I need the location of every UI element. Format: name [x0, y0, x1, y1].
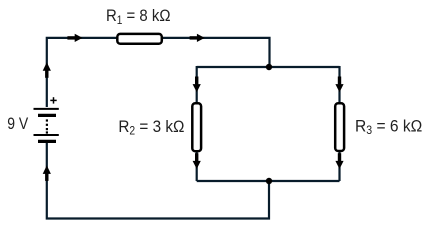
node B: bottom junction dot — [266, 178, 272, 184]
wire: R3 branch vertical — [338, 66, 340, 181]
current arrow down out of R2 — [193, 153, 201, 169]
svg-text:R3 = 6 kΩ: R3 = 6 kΩ — [355, 117, 422, 138]
wire: bottom return to battery - — [47, 142, 269, 219]
resistor R3 body — [335, 103, 344, 151]
battery B1: bottom long plate — [34, 134, 59, 136]
current arrow up on left wire (top) — [43, 62, 51, 78]
wire: left/top loop from battery + up and across to right drop — [47, 38, 270, 107]
resistor R2 body — [192, 103, 201, 151]
current arrow down into R3 — [335, 77, 343, 93]
resistor R1 body — [117, 34, 162, 44]
battery B1: top short plate — [38, 114, 56, 117]
battery B1: bottom short plate (-) — [38, 140, 56, 143]
battery B1: dotted cell separator — [46, 119, 48, 133]
svg-text:R2 = 3 kΩ: R2 = 3 kΩ — [118, 117, 184, 138]
current arrow right on top wire after R1 — [190, 34, 205, 42]
node A: top junction dot — [266, 64, 272, 70]
wire: middle top rail — [197, 66, 340, 68]
wire: middle bottom rail — [197, 180, 340, 182]
svg-text:9 V: 9 V — [7, 114, 29, 133]
current arrow down into R2 — [193, 77, 201, 93]
battery B1: top long plate (+) — [34, 108, 59, 110]
battery B1: plus sign — [50, 97, 56, 103]
current arrow up on bottom-left wire — [43, 165, 51, 181]
current arrow right on top wire before R1 — [67, 34, 82, 42]
svg-text:R1 = 8 kΩ: R1 = 8 kΩ — [106, 6, 171, 27]
wire: R2 branch vertical — [196, 66, 198, 181]
current arrow down out of R3 — [335, 153, 343, 169]
